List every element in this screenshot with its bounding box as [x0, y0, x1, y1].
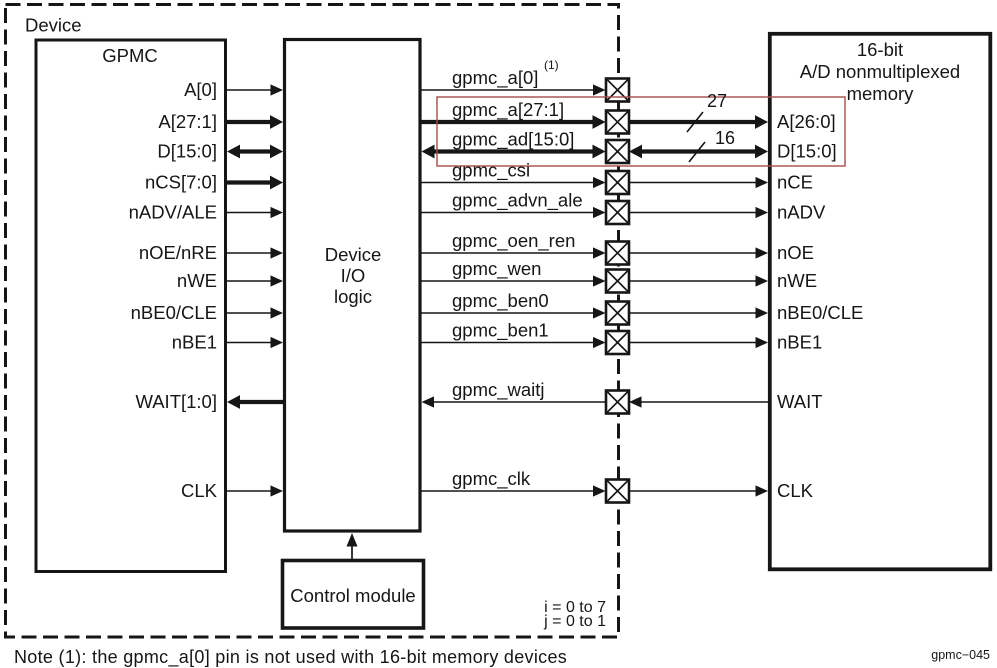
svg-text:nBE0/CLE: nBE0/CLE — [131, 302, 217, 323]
svg-text:gpmc−045: gpmc−045 — [931, 648, 990, 662]
svg-text:gpmc_oen_ren: gpmc_oen_ren — [452, 230, 575, 252]
svg-text:gpmc_ben1: gpmc_ben1 — [452, 320, 549, 342]
svg-text:WAIT[1:0]: WAIT[1:0] — [135, 391, 217, 412]
svg-text:WAIT: WAIT — [777, 391, 823, 412]
svg-text:nBE0/CLE: nBE0/CLE — [777, 302, 863, 323]
svg-text:nBE1: nBE1 — [172, 332, 217, 353]
svg-text:nCS[7:0]: nCS[7:0] — [145, 172, 217, 193]
svg-text:I/O: I/O — [341, 265, 366, 286]
svg-text:Note (1): the gpmc_a[0] pin is: Note (1): the gpmc_a[0] pin is not used … — [14, 647, 567, 668]
svg-text:CLK: CLK — [181, 480, 218, 501]
svg-text:memory: memory — [847, 83, 915, 104]
svg-text:A[26:0]: A[26:0] — [777, 111, 836, 132]
svg-text:GPMC: GPMC — [102, 45, 158, 66]
svg-text:gpmc_csi: gpmc_csi — [452, 160, 530, 182]
svg-text:A[0]: A[0] — [184, 79, 217, 100]
svg-text:Control module: Control module — [290, 585, 415, 606]
svg-text:D[15:0]: D[15:0] — [777, 141, 837, 162]
svg-text:gpmc_advn_ale: gpmc_advn_ale — [452, 190, 583, 212]
svg-text:CLK: CLK — [777, 480, 814, 501]
svg-text:D[15:0]: D[15:0] — [157, 141, 217, 162]
svg-text:(1): (1) — [544, 58, 559, 72]
svg-text:nWE: nWE — [777, 270, 817, 291]
svg-text:gpmc_wen: gpmc_wen — [452, 258, 541, 280]
svg-text:A/D nonmultiplexed: A/D nonmultiplexed — [800, 61, 960, 82]
svg-text:Device: Device — [25, 15, 82, 36]
svg-text:gpmc_clk: gpmc_clk — [452, 468, 531, 490]
svg-text:gpmc_a[0]: gpmc_a[0] — [452, 67, 538, 89]
svg-text:nCE: nCE — [777, 172, 813, 193]
svg-text:16: 16 — [715, 128, 735, 148]
svg-text:nBE1: nBE1 — [777, 332, 822, 353]
svg-text:Device: Device — [325, 244, 382, 265]
svg-text:nWE: nWE — [177, 270, 217, 291]
svg-text:j = 0 to 1: j = 0 to 1 — [543, 613, 606, 630]
svg-text:gpmc_waitj: gpmc_waitj — [452, 379, 545, 401]
svg-text:nADV: nADV — [777, 202, 826, 223]
svg-text:nOE/nRE: nOE/nRE — [139, 242, 217, 263]
svg-text:A[27:1]: A[27:1] — [158, 111, 217, 132]
svg-text:16-bit: 16-bit — [857, 39, 903, 60]
svg-text:logic: logic — [334, 286, 372, 307]
svg-text:gpmc_ben0: gpmc_ben0 — [452, 290, 549, 312]
svg-text:gpmc_a[27:1]: gpmc_a[27:1] — [452, 99, 564, 121]
svg-text:nOE: nOE — [777, 242, 814, 263]
svg-text:gpmc_ad[15:0]: gpmc_ad[15:0] — [452, 129, 574, 151]
svg-text:27: 27 — [707, 91, 727, 111]
svg-text:nADV/ALE: nADV/ALE — [129, 202, 217, 223]
